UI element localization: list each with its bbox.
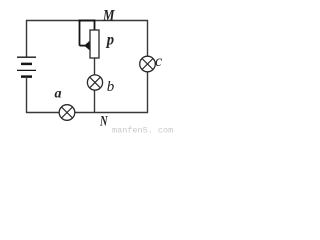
wire right upper	[147, 20, 149, 57]
lamp c	[140, 56, 156, 72]
battery	[17, 57, 36, 76]
svg-text:b: b	[107, 79, 115, 95]
wire bottom	[26, 112, 148, 114]
lamp b	[87, 75, 102, 90]
svg-text:manfen5. com: manfen5. com	[112, 126, 173, 136]
wire right lower	[147, 71, 149, 113]
svg-text:N: N	[99, 114, 108, 130]
wire middle lower	[94, 58, 96, 113]
svg-text:a: a	[55, 87, 62, 102]
rheostat P body	[90, 30, 99, 58]
wire top	[26, 20, 148, 22]
svg-text:M: M	[102, 8, 115, 25]
rheostat P slider arrow	[84, 41, 90, 51]
wire left upper	[26, 20, 28, 58]
svg-text:c: c	[155, 53, 162, 70]
lamp a	[59, 105, 75, 121]
wire left lower	[26, 77, 28, 113]
rheostat P slider bracket	[79, 20, 96, 46]
svg-text:p: p	[105, 31, 114, 48]
